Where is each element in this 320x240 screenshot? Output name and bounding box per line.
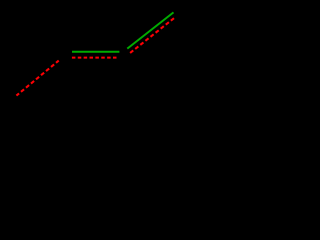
middle branch: red dashed horizontal segment <box>72 57 117 59</box>
left branch: red dashed rising segment <box>16 61 58 96</box>
middle branch: green solid horizontal segment <box>72 51 119 53</box>
right branch: red dashed rising segment <box>130 18 175 54</box>
right branch: green solid rising segment <box>127 12 173 48</box>
chart canvas <box>0 0 191 111</box>
